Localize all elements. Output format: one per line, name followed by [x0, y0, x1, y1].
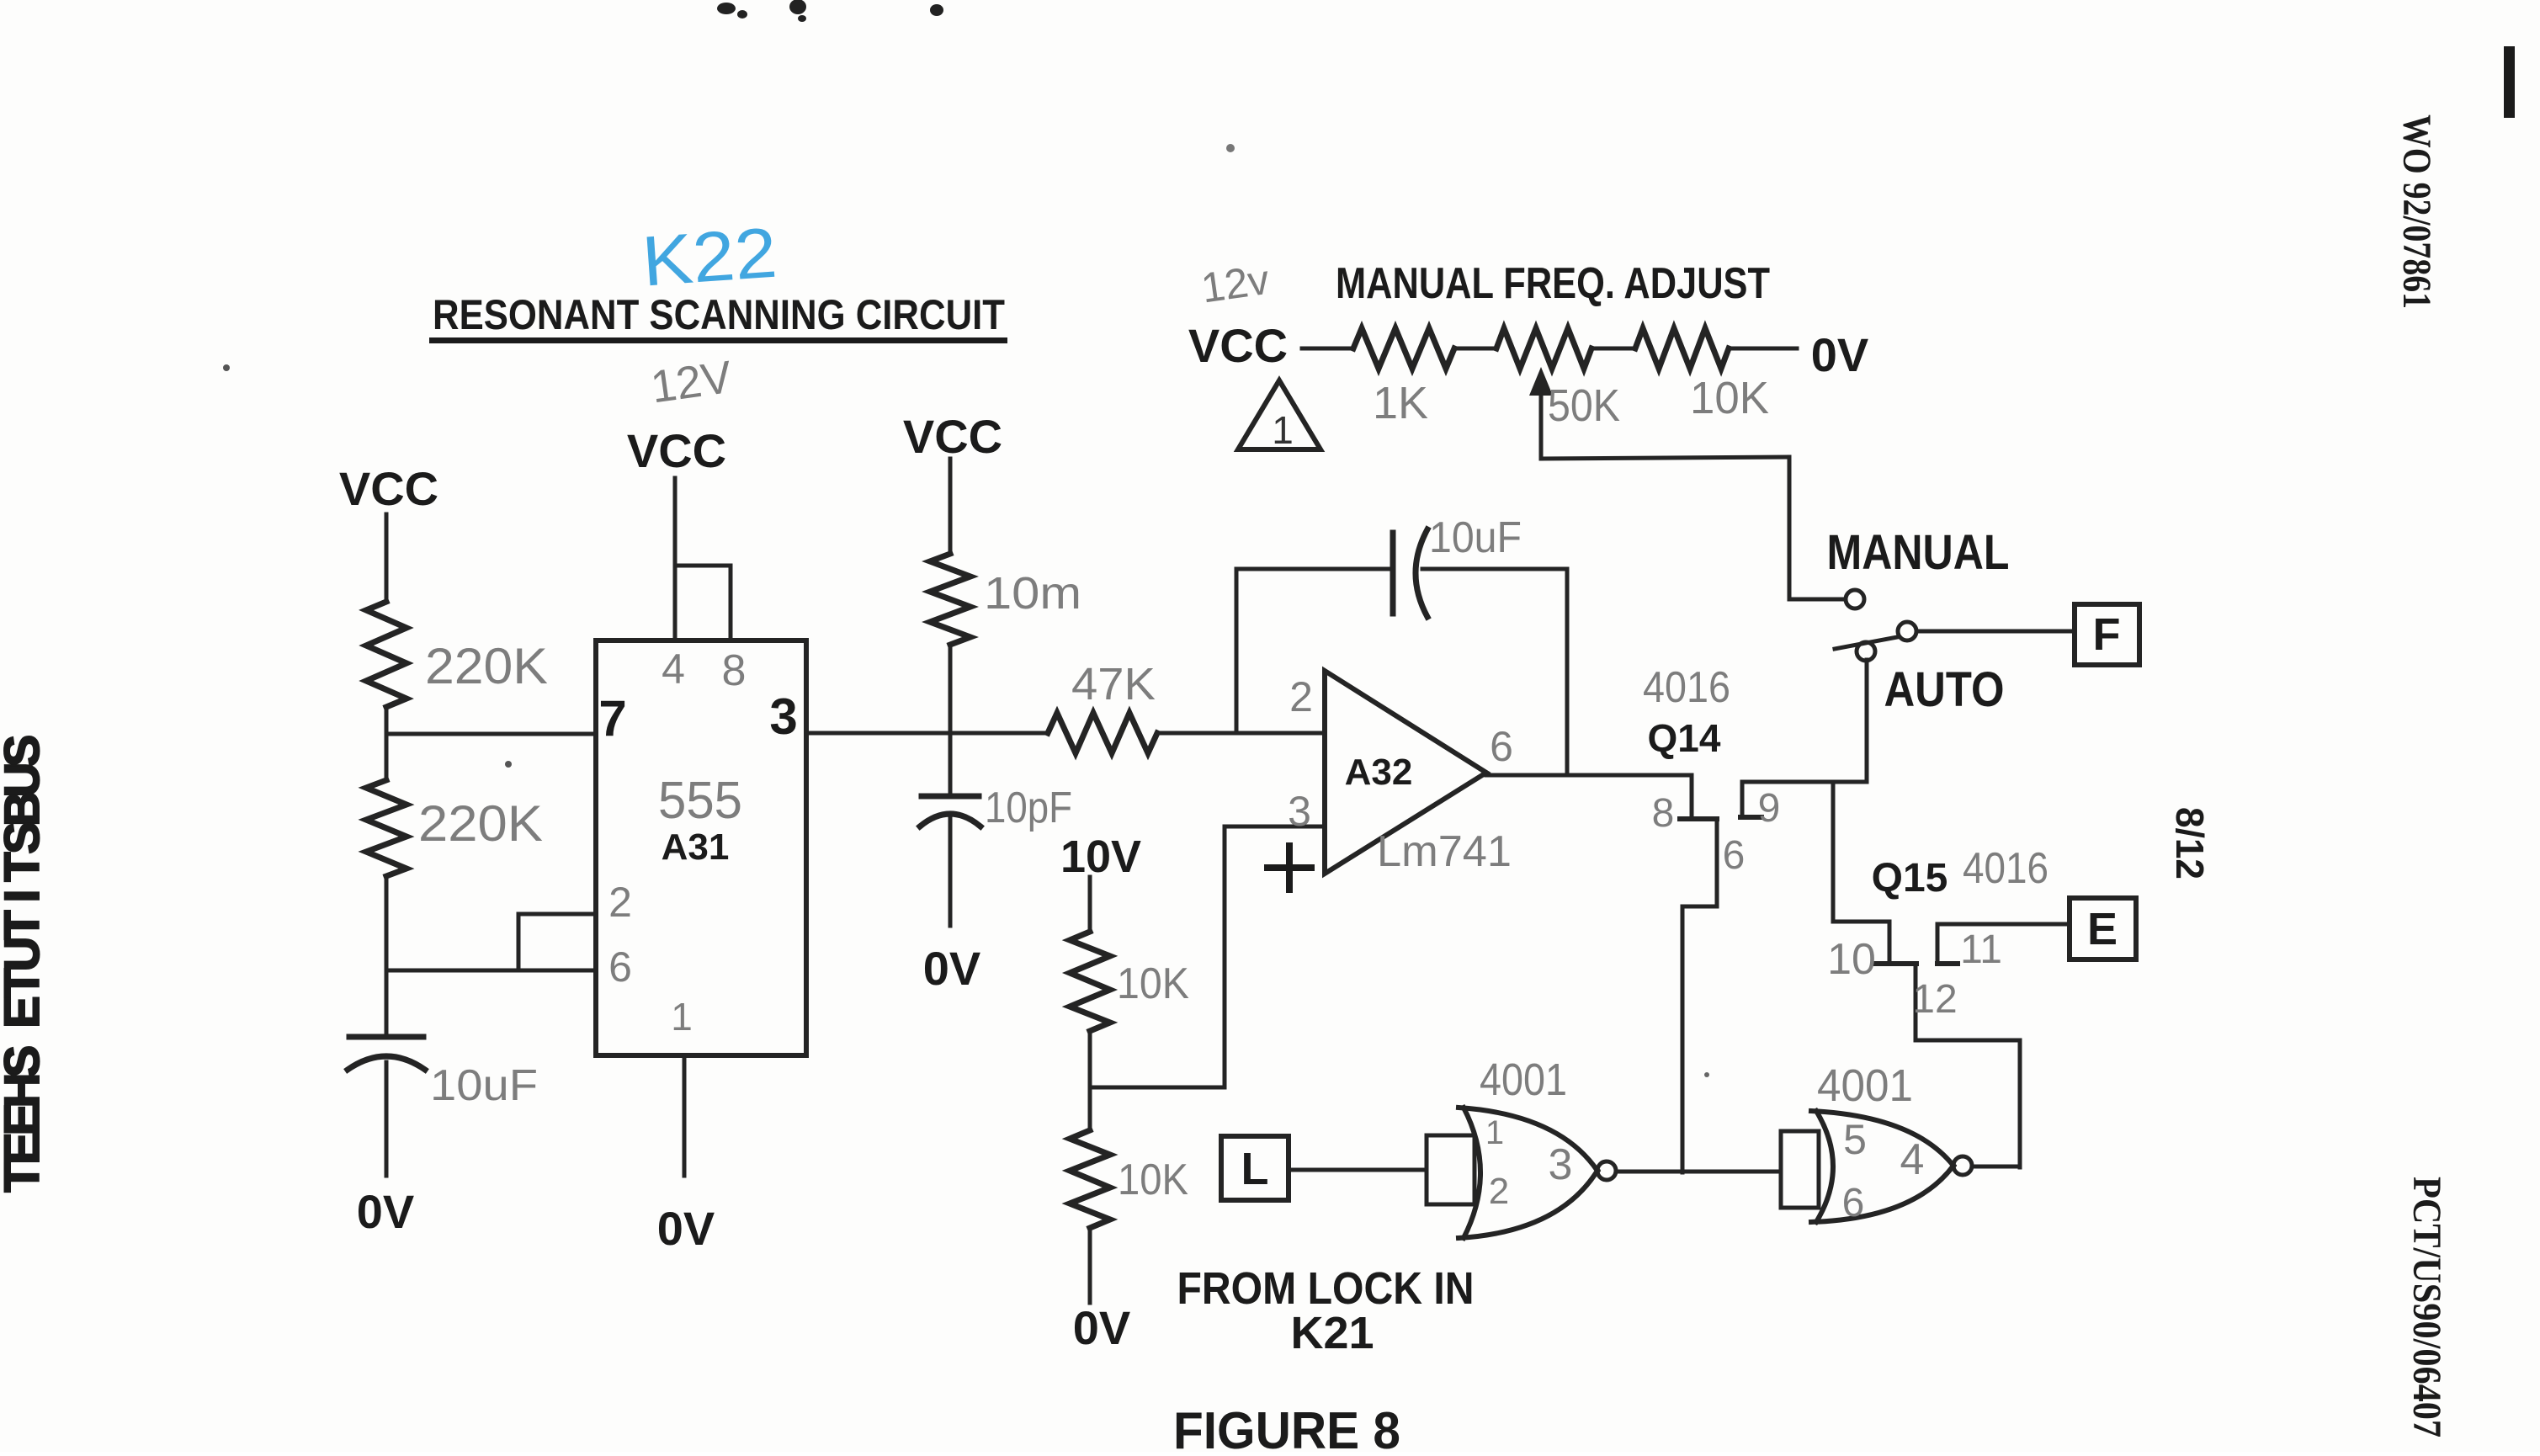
svg-text:0V: 0V	[657, 1202, 715, 1255]
svg-text:FROM LOCK IN: FROM LOCK IN	[1177, 1263, 1475, 1314]
svg-text:E: E	[0, 1103, 50, 1136]
svg-text:T: T	[0, 968, 50, 997]
svg-text:11: 11	[1960, 927, 2002, 972]
svg-text:8/12: 8/12	[2168, 807, 2212, 879]
svg-text:MANUAL: MANUAL	[1827, 525, 2010, 580]
svg-text:L: L	[1241, 1144, 1269, 1194]
svg-text:8: 8	[722, 646, 747, 695]
svg-text:220K: 220K	[418, 795, 543, 852]
svg-text:1K: 1K	[1373, 378, 1428, 428]
svg-text:6: 6	[1842, 1181, 1865, 1225]
svg-text:K21: K21	[1290, 1308, 1374, 1358]
svg-text:T: T	[0, 910, 50, 939]
svg-text:12v: 12v	[1198, 256, 1273, 312]
svg-text:3: 3	[769, 688, 797, 745]
svg-text:10V: 10V	[1060, 832, 1141, 882]
svg-text:4001: 4001	[1480, 1055, 1567, 1105]
svg-text:T: T	[0, 1162, 50, 1192]
svg-text:220K: 220K	[425, 638, 548, 694]
svg-text:0V: 0V	[1811, 328, 1869, 381]
svg-text:Q15: Q15	[1872, 856, 1948, 901]
svg-text:0V: 0V	[357, 1185, 415, 1238]
svg-text:4016: 4016	[1643, 663, 1730, 712]
svg-text:S: S	[0, 735, 50, 768]
svg-text:VCC: VCC	[903, 410, 1002, 463]
svg-text:VCC: VCC	[1188, 319, 1288, 372]
svg-text:I: I	[0, 889, 50, 902]
svg-text:S: S	[0, 1045, 50, 1078]
svg-text:555: 555	[658, 772, 742, 830]
svg-text:RESONANT SCANNING CIRCUIT: RESONANT SCANNING CIRCUIT	[433, 291, 1005, 338]
svg-text:10: 10	[1827, 935, 1876, 984]
svg-text:1: 1	[1272, 408, 1294, 452]
svg-text:FIGURE 8: FIGURE 8	[1173, 1402, 1400, 1452]
svg-text:2: 2	[1289, 673, 1313, 720]
svg-text:12: 12	[1912, 977, 1957, 1022]
svg-text:10uF: 10uF	[1429, 513, 1522, 562]
svg-text:4: 4	[662, 646, 685, 693]
svg-text:0V: 0V	[923, 942, 981, 995]
svg-text:2: 2	[1489, 1171, 1509, 1212]
svg-text:WO 92/07861: WO 92/07861	[2394, 114, 2439, 309]
svg-text:MANUAL FREQ. ADJUST: MANUAL FREQ. ADJUST	[1336, 259, 1770, 308]
svg-text:3: 3	[1549, 1140, 1573, 1189]
svg-text:PCT/US90/06407: PCT/US90/06407	[2404, 1177, 2449, 1437]
svg-text:E: E	[0, 1132, 50, 1165]
svg-text:F: F	[2093, 609, 2121, 660]
svg-text:47K: 47K	[1071, 659, 1156, 709]
svg-text:10K: 10K	[1118, 1156, 1188, 1204]
svg-text:H: H	[0, 1073, 50, 1108]
svg-text:9: 9	[1758, 786, 1781, 831]
svg-text:10K: 10K	[1117, 959, 1189, 1008]
svg-text:B: B	[0, 791, 50, 826]
svg-text:K22: K22	[640, 213, 779, 301]
svg-text:50K: 50K	[1548, 380, 1620, 431]
svg-text:3: 3	[1288, 788, 1311, 835]
svg-text:4: 4	[1900, 1135, 1925, 1184]
svg-text:10uF: 10uF	[430, 1061, 538, 1110]
svg-text:6: 6	[608, 943, 632, 991]
svg-text:VCC: VCC	[339, 462, 438, 515]
svg-text:A31: A31	[662, 826, 730, 868]
svg-text:0V: 0V	[1073, 1301, 1131, 1354]
svg-text:A32: A32	[1345, 752, 1413, 793]
svg-text:8: 8	[1652, 791, 1675, 836]
svg-text:Lm741: Lm741	[1377, 827, 1512, 876]
svg-text:E: E	[0, 996, 50, 1028]
svg-text:4016: 4016	[1963, 844, 2048, 893]
svg-text:5: 5	[1843, 1116, 1867, 1163]
svg-text:VCC: VCC	[627, 424, 726, 477]
svg-text:E: E	[2087, 904, 2118, 954]
svg-text:10K: 10K	[1690, 373, 1769, 423]
svg-text:S: S	[0, 821, 50, 854]
svg-text:10m: 10m	[984, 568, 1081, 619]
svg-text:2: 2	[608, 879, 632, 926]
svg-text:T: T	[0, 852, 50, 881]
svg-text:1: 1	[1485, 1114, 1504, 1151]
svg-text:AUTO: AUTO	[1884, 662, 2005, 717]
svg-text:1: 1	[671, 995, 693, 1039]
svg-text:U: U	[0, 937, 50, 972]
svg-text:6: 6	[1723, 833, 1746, 878]
svg-text:6: 6	[1490, 723, 1513, 770]
svg-text:Q14: Q14	[1648, 716, 1721, 760]
svg-text:4001: 4001	[1817, 1060, 1913, 1111]
svg-text:10pF: 10pF	[985, 784, 1072, 832]
svg-text:7: 7	[598, 690, 626, 747]
